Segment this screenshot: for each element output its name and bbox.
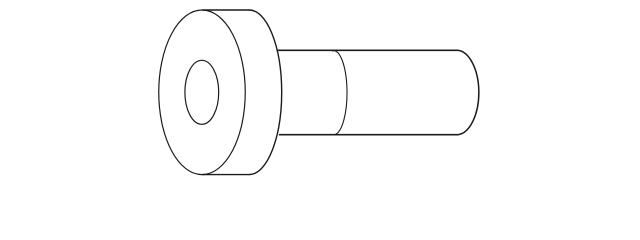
shank bottom silhouette line bbox=[280, 134, 459, 136]
shank rounded tip cap bbox=[457, 50, 479, 134]
bolt head top tangent line bbox=[203, 9, 250, 11]
bolt head front face ellipse bbox=[159, 10, 246, 175]
bolt head bottom tangent line bbox=[203, 174, 250, 176]
shank top silhouette line bbox=[278, 49, 458, 51]
bolt head back rim arc bbox=[249, 10, 282, 175]
bolt head center hole bbox=[185, 60, 219, 124]
shank thread boundary ring arc bbox=[332, 51, 347, 135]
